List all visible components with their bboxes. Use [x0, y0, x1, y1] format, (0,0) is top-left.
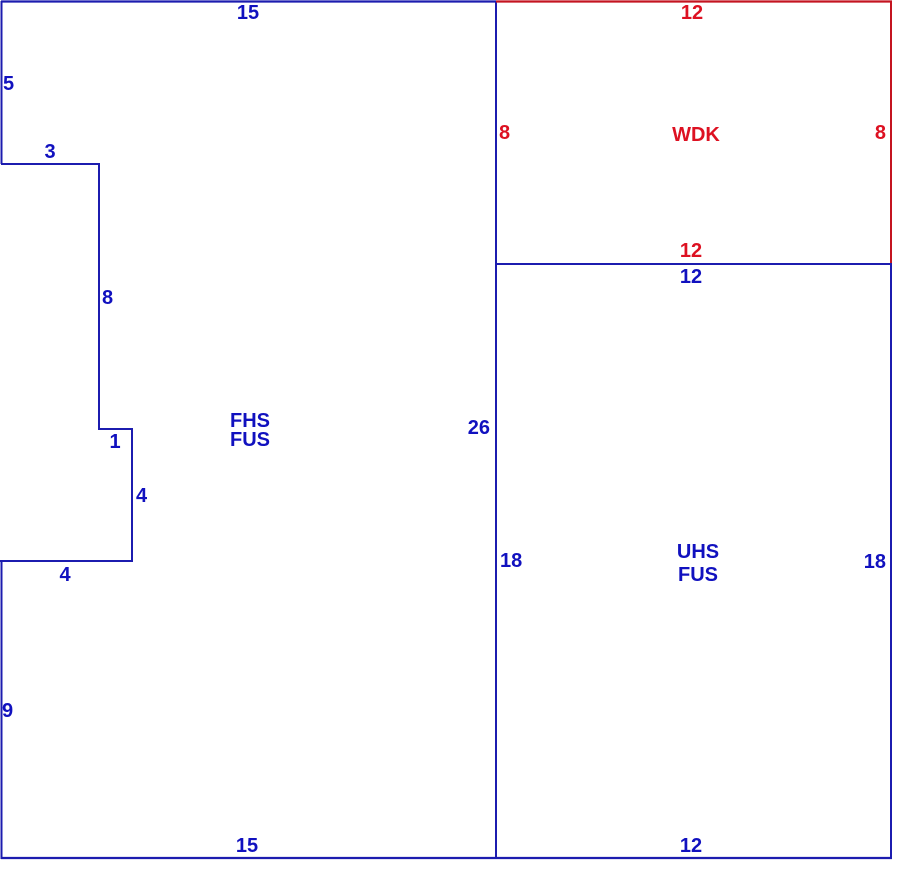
svg-text:8: 8: [102, 287, 113, 309]
svg-text:12: 12: [680, 266, 702, 288]
wall step horizontal (1): [98, 428, 132, 430]
wall WDK top edge (red 12): [496, 0, 892, 2]
svg-text:9: 9: [2, 700, 13, 722]
wall WDK right vertical (red 8): [890, 1, 892, 263]
svg-text:12: 12: [680, 240, 702, 262]
svg-text:1: 1: [109, 431, 120, 453]
svg-text:WDK: WDK: [672, 124, 720, 146]
svg-text:4: 4: [136, 485, 148, 507]
wall horizontal (4): [0, 560, 133, 562]
svg-text:8: 8: [875, 122, 886, 144]
wall mid vertical (8): [98, 163, 100, 429]
svg-text:FUS: FUS: [678, 564, 718, 586]
wall vertical (4): [131, 428, 133, 561]
svg-text:18: 18: [500, 550, 522, 572]
wall top edge FHS (blue): [1, 0, 496, 2]
wall step horizontal (3): [1, 163, 99, 165]
svg-text:UHS: UHS: [677, 541, 719, 563]
svg-text:12: 12: [681, 2, 703, 24]
wall left upper vertical (5): [1, 1, 3, 164]
wall center divider (26/18): [495, 1, 497, 858]
wall bottom edge (15/12): [1, 857, 892, 859]
wall left lower vertical (9): [1, 560, 3, 859]
svg-text:12: 12: [680, 835, 702, 857]
svg-text:5: 5: [3, 73, 14, 95]
svg-text:26: 26: [468, 417, 490, 439]
svg-text:18: 18: [864, 551, 886, 573]
svg-text:15: 15: [237, 2, 259, 24]
svg-text:8: 8: [499, 122, 510, 144]
svg-text:15: 15: [236, 835, 258, 857]
svg-text:FUS: FUS: [230, 429, 270, 451]
wall right vertical UHS (18): [890, 263, 892, 859]
svg-text:3: 3: [44, 141, 55, 163]
svg-text:4: 4: [59, 564, 71, 586]
wall UHS top edge (12): [495, 263, 892, 265]
